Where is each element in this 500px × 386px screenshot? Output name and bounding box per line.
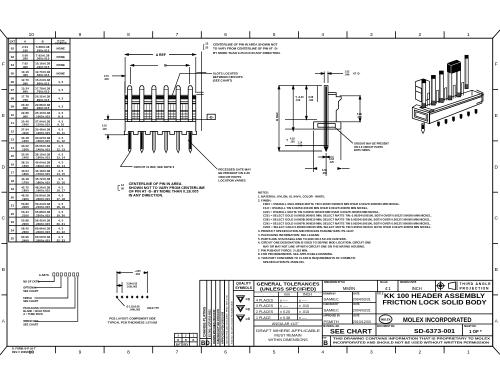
svg-text:22: 22 bbox=[11, 212, 15, 216]
svg-text:.2400: .2400 bbox=[21, 238, 29, 242]
svg-text:DOCUMENT NO.: DOCUMENT NO. bbox=[377, 326, 395, 328]
svg-text:APPROVED:PSM 2003/10/09: APPROVED:PSM 2003/10/09 bbox=[222, 311, 225, 344]
chart table header row bbox=[10, 40, 67, 45]
svg-text:6: 6 bbox=[224, 32, 227, 38]
datum flag box D bbox=[207, 114, 215, 119]
svg-text:CHECKED BY: CHECKED BY bbox=[323, 304, 339, 306]
svg-text:3 PLACES: 3 PLACES bbox=[256, 304, 274, 308]
svg-text:SYM: SYM bbox=[322, 337, 327, 339]
svg-text:SAMIEC: SAMIEC bbox=[324, 297, 339, 302]
svg-text:LOCATION VARIES: LOCATION VARIES bbox=[218, 179, 245, 183]
note 13 text bottom bbox=[129, 182, 206, 198]
svg-text:.1100: .1100 bbox=[21, 131, 29, 135]
svg-text:D: D bbox=[2, 164, 6, 170]
svg-text:PSMITH: PSMITH bbox=[324, 319, 339, 324]
svg-text:A REF: A REF bbox=[156, 53, 166, 57]
drawing title text bbox=[383, 293, 488, 307]
svg-text:.250: .250 bbox=[322, 172, 327, 175]
isometric view: long front tail bbox=[422, 123, 425, 134]
svg-text:12: 12 bbox=[11, 129, 15, 133]
svg-text:INCH: INCH bbox=[303, 293, 312, 297]
svg-text:15, 16: 15, 16 bbox=[57, 181, 66, 185]
svg-text:10: 10 bbox=[29, 32, 35, 38]
svg-text:.1300: .1300 bbox=[21, 148, 29, 152]
svg-text:.330: .330 bbox=[309, 99, 314, 102]
svg-text:.900: .900 bbox=[22, 114, 28, 118]
svg-text:.1200: .1200 bbox=[21, 139, 29, 143]
tolerance sub-table grid bbox=[254, 292, 322, 326]
tolerance sub-table text bbox=[256, 293, 312, 326]
isometric view: bottom pegs bbox=[422, 109, 477, 133]
svg-text:A: A bbox=[24, 40, 26, 44]
svg-text:.040±.002: .040±.002 bbox=[130, 308, 141, 311]
third angle projection text bbox=[460, 282, 492, 290]
svg-text:.2100±.015: .2100±.015 bbox=[35, 205, 50, 209]
isometric view: front lock block bbox=[412, 107, 429, 123]
svg-text:PROJECTION: PROJECTION bbox=[460, 287, 490, 291]
quality symbol marks bbox=[237, 296, 245, 302]
svg-text:06: 06 bbox=[11, 80, 15, 84]
front view bottom castellated edge bbox=[124, 132, 196, 135]
svg-text:SEE CHART: SEE CHART bbox=[330, 329, 372, 335]
note 13 text top bbox=[213, 42, 281, 55]
svg-text:ON 2-6 CIRCUIT PARTS: ON 2-6 CIRCUIT PARTS bbox=[354, 145, 383, 149]
side view left dim B REF bbox=[278, 86, 322, 151]
slots leader line bbox=[172, 52, 212, 132]
svg-text:15: 15 bbox=[11, 154, 15, 158]
svg-text:09: 09 bbox=[11, 105, 15, 109]
svg-text:14: 14 bbox=[11, 146, 15, 150]
isometric view: friction lock latch dark block bbox=[447, 60, 461, 74]
proprietary disclaimer bbox=[333, 336, 490, 344]
svg-text:FILE NO. SD-6373-001-B2 RELEAS: FILE NO. SD-6373-001-B2 RELEASE DATE bbox=[230, 300, 233, 344]
svg-text:4, 5: 4, 5 bbox=[58, 80, 63, 84]
svg-text:7: 7 bbox=[176, 350, 179, 356]
note 13 leader vertical bbox=[200, 52, 202, 132]
circuit 1 leader bbox=[121, 153, 133, 166]
front view slot wall verticals bbox=[134, 104, 186, 118]
svg-text:A: A bbox=[2, 318, 6, 324]
svg-text:10, 11: 10, 11 bbox=[57, 131, 66, 135]
form note under border bbox=[12, 346, 36, 353]
svg-text:F: F bbox=[495, 62, 498, 68]
isometric view: body top face bbox=[412, 79, 483, 124]
side view body profile bbox=[314, 93, 342, 130]
svg-text:.169: .169 bbox=[296, 99, 301, 102]
chart table data rows bbox=[11, 45, 66, 242]
svg-text:A: A bbox=[495, 318, 499, 324]
svg-text:.045: .045 bbox=[298, 145, 303, 148]
svg-text:4: 4 bbox=[321, 32, 324, 38]
svg-text:18, 19: 18, 19 bbox=[57, 205, 66, 209]
svg-text:.030: .030 bbox=[104, 78, 109, 81]
svg-text:E: E bbox=[495, 113, 498, 119]
svg-text:SEE CHART: SEE CHART bbox=[23, 299, 38, 303]
svg-text:.2000: .2000 bbox=[21, 205, 29, 209]
svg-text:B: B bbox=[193, 339, 195, 342]
svg-text:A-6373-: A-6373- bbox=[39, 273, 50, 277]
svg-text:CHECKED:MJTYER 2003/10/09: CHECKED:MJTYER 2003/10/09 bbox=[217, 308, 220, 344]
groove leader bbox=[335, 128, 353, 144]
svg-text:WITHIN DIMENSIONS: WITHIN DIMENSIONS bbox=[268, 337, 308, 342]
svg-text:.1400: .1400 bbox=[21, 156, 29, 160]
title block small headers row1 bbox=[324, 281, 417, 284]
svg-text:± .015: ± .015 bbox=[299, 310, 309, 314]
svg-text:SHEET NO.: SHEET NO. bbox=[464, 326, 477, 328]
svg-text:HOLE TYP: HOLE TYP bbox=[147, 307, 159, 310]
svg-text:.1000±.015: .1000±.015 bbox=[35, 114, 50, 118]
recessed gate label bbox=[218, 168, 251, 183]
svg-text:3: 3 bbox=[370, 32, 373, 38]
svg-text:B REF: B REF bbox=[275, 112, 279, 121]
svg-text:13, 14: 13, 14 bbox=[57, 156, 66, 160]
isometric view: pins bbox=[422, 55, 468, 107]
isometric view: left end wall bbox=[416, 79, 430, 102]
svg-text:.900±.015: .900±.015 bbox=[36, 106, 50, 110]
svg-text:D. FORM: B-P-JA-T: D. FORM: B-P-JA-T bbox=[12, 346, 36, 350]
side view inner dims bbox=[285, 86, 328, 146]
svg-text:.300: .300 bbox=[22, 65, 28, 69]
side view base box bbox=[314, 122, 341, 129]
narrow strip rotated text bbox=[227, 294, 234, 344]
svg-text:-D-: -D- bbox=[209, 116, 215, 120]
svg-text:ANGULAR ±1/2°: ANGULAR ±1/2° bbox=[272, 322, 299, 326]
svg-text:2 PLACES: 2 PLACES bbox=[256, 310, 274, 314]
revision strip rotated text bbox=[201, 306, 225, 347]
svg-text:5: 5 bbox=[273, 32, 276, 38]
svg-text:SHT: SHT bbox=[176, 343, 181, 346]
pcb layout holes bbox=[116, 295, 149, 298]
svg-text:.1100±.015: .1100±.015 bbox=[35, 123, 50, 127]
notes text block bbox=[258, 191, 432, 264]
material no / document no / sheet no values bbox=[330, 329, 482, 336]
groove label bbox=[354, 141, 389, 152]
svg-text:B: B bbox=[323, 340, 328, 347]
svg-text:.100±.002: .100±.002 bbox=[127, 285, 138, 288]
svg-text:INCORPORATED AND SHOULD NOT BE: INCORPORATED AND SHOULD NOT BE USED WITH… bbox=[333, 341, 489, 345]
svg-text:24: 24 bbox=[11, 228, 15, 232]
quality symbols header bbox=[235, 281, 253, 289]
svg-text:DATE: DATE bbox=[353, 303, 360, 306]
svg-text:SYMBOLS: SYMBOLS bbox=[235, 286, 253, 290]
svg-text:21: 21 bbox=[11, 204, 15, 208]
svg-text:SD-6373-001: SD-6373-001 bbox=[414, 329, 455, 335]
svg-text:NONE: NONE bbox=[57, 63, 66, 67]
svg-text:.700: .700 bbox=[22, 98, 28, 102]
legend leader lines bbox=[35, 276, 78, 321]
svg-text:.200±.015: .200±.015 bbox=[36, 48, 50, 52]
svg-text:.1200±.015: .1200±.015 bbox=[35, 131, 50, 135]
svg-text:LOCATION: LOCATION bbox=[55, 42, 67, 45]
svg-text:QUALITY: QUALITY bbox=[236, 281, 252, 285]
circuit chart table grid bbox=[9, 38, 70, 242]
front view body outline bbox=[125, 95, 196, 131]
svg-text:BOTH SIDES.: BOTH SIDES. bbox=[354, 148, 371, 152]
svg-text:.500: .500 bbox=[22, 81, 28, 85]
svg-text:4: 4 bbox=[321, 350, 324, 356]
svg-text:THIRD ANGLE: THIRD ANGLE bbox=[460, 282, 492, 286]
svg-text:13, 14: 13, 14 bbox=[57, 164, 66, 168]
svg-text:4, 5: 4, 5 bbox=[58, 96, 63, 100]
svg-text:.2200: .2200 bbox=[21, 222, 29, 226]
third angle projection symbol bbox=[436, 281, 457, 290]
svg-text:2004/03/31: 2004/03/31 bbox=[353, 309, 371, 313]
front view pins bbox=[128, 86, 193, 122]
svg-text:GROOVE MAY BE PRESENT: GROOVE MAY BE PRESENT bbox=[354, 141, 389, 145]
svg-text:MM/IN: MM/IN bbox=[343, 286, 355, 291]
svg-text:AT -D-: AT -D- bbox=[353, 73, 360, 76]
svg-text:MOLEX INCORPORATED: MOLEX INCORPORATED bbox=[403, 318, 472, 324]
svg-text:=0: =0 bbox=[246, 317, 250, 321]
svg-text:B: B bbox=[164, 64, 167, 68]
pcb layout dim labels bbox=[127, 270, 160, 312]
svg-text:DIMENSION STYLE: DIMENSION STYLE bbox=[324, 282, 346, 284]
svg-text:.500±.015: .500±.015 bbox=[36, 73, 50, 77]
svg-text:8: 8 bbox=[127, 32, 130, 38]
svg-text:(UNLESS SPECIFIED): (UNLESS SPECIFIED) bbox=[260, 287, 317, 292]
svg-text:NONE: NONE bbox=[57, 47, 66, 51]
svg-text:.040: .040 bbox=[345, 74, 350, 77]
svg-text:.1800±.015: .1800±.015 bbox=[35, 181, 50, 185]
svg-text:13: 13 bbox=[121, 183, 124, 187]
svg-text:20, 21: 20, 21 bbox=[57, 222, 66, 226]
title block grid bbox=[224, 280, 492, 346]
svg-text:7: 7 bbox=[176, 32, 179, 38]
svg-text:DATE: DATE bbox=[353, 292, 360, 295]
svg-text:.1400±.015: .1400±.015 bbox=[35, 148, 50, 152]
svg-text:SAMIEC: SAMIEC bbox=[324, 308, 339, 313]
front view body hatched bands bbox=[125, 96, 196, 117]
svg-text:TYPICAL PCB THICKNESS 1.57/.06: TYPICAL PCB THICKNESS 1.57/.062 bbox=[108, 321, 158, 325]
revision strip box bbox=[200, 280, 225, 346]
svg-text:.1800: .1800 bbox=[21, 189, 29, 193]
svg-text:.2200±.015: .2200±.015 bbox=[35, 214, 50, 218]
svg-text:.125: .125 bbox=[329, 161, 334, 164]
svg-text:CKT: CKT bbox=[10, 40, 16, 44]
svg-text:.200: .200 bbox=[357, 116, 362, 119]
legend labels bbox=[23, 279, 50, 326]
svg-text:APPROVED BY: APPROVED BY bbox=[323, 315, 340, 318]
svg-text:4 PLACES: 4 PLACES bbox=[256, 298, 274, 302]
svg-text:DRAWN BY: DRAWN BY bbox=[323, 292, 336, 295]
sym B revision box bbox=[322, 337, 328, 347]
svg-text:.1900: .1900 bbox=[21, 197, 29, 201]
svg-text:8, 9: 8, 9 bbox=[58, 114, 63, 118]
svg-text:E: E bbox=[2, 113, 5, 119]
svg-text:16, 17: 16, 17 bbox=[57, 189, 66, 193]
sheet border frame bbox=[7, 38, 493, 346]
svg-text:11: 11 bbox=[11, 121, 15, 125]
sheet revision mini table bbox=[175, 333, 198, 346]
svg-text:REV: REV bbox=[183, 343, 188, 346]
svg-text:.100: .100 bbox=[22, 48, 28, 52]
svg-text:.2300±.015: .2300±.015 bbox=[35, 222, 50, 226]
left small dim labels front view bbox=[102, 75, 109, 131]
svg-text:25: 25 bbox=[11, 237, 15, 241]
svg-text:2004/03/31: 2004/03/31 bbox=[353, 298, 371, 302]
svg-text:± 0.38: ± 0.38 bbox=[280, 316, 290, 320]
svg-text:.125: .125 bbox=[102, 128, 107, 131]
slots located label bbox=[213, 72, 243, 83]
svg-text:.1700±.015: .1700±.015 bbox=[35, 172, 50, 176]
svg-text:17, 18: 17, 18 bbox=[57, 197, 66, 201]
drawn/checked/approved rows bbox=[323, 292, 476, 328]
svg-text:FRICTION LOCK SOLID BODY: FRICTION LOCK SOLID BODY bbox=[383, 300, 488, 307]
svg-text:BD: BD bbox=[201, 341, 210, 347]
svg-text:.165: .165 bbox=[290, 140, 295, 143]
svg-text:± ----: ± ---- bbox=[280, 304, 289, 308]
datum centerline -D- bbox=[104, 119, 207, 121]
svg-text:.2100: .2100 bbox=[21, 214, 29, 218]
svg-text:REV. F 2006/06/16: REV. F 2006/06/16 bbox=[12, 350, 34, 354]
svg-text:.800±.015: .800±.015 bbox=[36, 98, 50, 102]
svg-text:B: B bbox=[185, 339, 187, 342]
svg-text:19: 19 bbox=[11, 187, 15, 191]
legend part number boxes bbox=[53, 273, 79, 276]
svg-text:11, 12: 11, 12 bbox=[57, 139, 66, 143]
svg-text:.1600: .1600 bbox=[21, 172, 29, 176]
svg-text:.1500: .1500 bbox=[21, 164, 29, 168]
svg-text:.1900±.015: .1900±.015 bbox=[35, 189, 50, 193]
svg-text:.2400±.015: .2400±.015 bbox=[35, 230, 50, 234]
svg-text:2010/12/03: 2010/12/03 bbox=[353, 320, 371, 324]
svg-text:NONE: NONE bbox=[57, 55, 66, 59]
svg-text:4, 5: 4, 5 bbox=[58, 88, 63, 92]
dimension A REF over front view bbox=[125, 54, 196, 94]
svg-text:22, 23: 22, 23 bbox=[57, 238, 66, 242]
svg-text:.600: .600 bbox=[22, 90, 28, 94]
svg-text:9: 9 bbox=[79, 350, 82, 356]
svg-text:(SEE CHART): (SEE CHART) bbox=[213, 79, 232, 83]
svg-text:SCALE: SCALE bbox=[380, 281, 388, 284]
svg-text:± ----: ± ---- bbox=[299, 298, 308, 302]
svg-text:MATERIAL NO.: MATERIAL NO. bbox=[323, 325, 340, 328]
svg-text:.800: .800 bbox=[22, 106, 28, 110]
svg-text:2: 2 bbox=[418, 350, 421, 356]
svg-text:± 0.25: ± 0.25 bbox=[280, 310, 290, 314]
isometric view: body front face bbox=[429, 93, 482, 123]
recessed gate leader bbox=[188, 140, 217, 169]
svg-text:18: 18 bbox=[11, 179, 15, 183]
svg-text:NONE: NONE bbox=[57, 72, 66, 76]
svg-text:03: 03 bbox=[11, 55, 15, 59]
svg-text:13: 13 bbox=[11, 138, 15, 142]
svg-text:SEE CHART: SEE CHART bbox=[23, 322, 38, 326]
svg-text:04: 04 bbox=[11, 63, 15, 67]
isometric view: inter-pin walls bbox=[428, 82, 464, 106]
pcb layout caption bbox=[108, 317, 158, 325]
svg-text:-.002: -.002 bbox=[135, 273, 141, 276]
svg-text:=0: =0 bbox=[246, 298, 250, 302]
svg-text:DATE: DATE bbox=[353, 315, 360, 318]
side view top dim 1.02/.040 AT -D- bbox=[315, 72, 343, 84]
svg-text:20: 20 bbox=[11, 195, 15, 199]
svg-text:.400: .400 bbox=[22, 73, 28, 77]
svg-text:.1700: .1700 bbox=[21, 181, 29, 185]
pcb hole leader bbox=[118, 298, 125, 306]
svg-text:TITLE: TITLE bbox=[377, 293, 384, 295]
svg-text:23: 23 bbox=[11, 220, 15, 224]
svg-text:.2000±.015: .2000±.015 bbox=[35, 197, 50, 201]
general tolerances heading bbox=[257, 281, 320, 291]
svg-text:BY MORE THAN 0.25/.010 IN ANY: BY MORE THAN 0.25/.010 IN ANY DIRECTION. bbox=[213, 51, 281, 55]
svg-text:IN ANY DIRECTION.: IN ANY DIRECTION. bbox=[129, 194, 164, 198]
svg-text:B: B bbox=[42, 40, 44, 44]
svg-text:.1500±.015: .1500±.015 bbox=[35, 156, 50, 160]
svg-text:4, 5: 4, 5 bbox=[58, 105, 63, 109]
svg-text:.400±.015: .400±.015 bbox=[36, 65, 50, 69]
svg-text:21, 22: 21, 22 bbox=[57, 230, 66, 234]
svg-text:SPECIFICATION PS-45499-001.: SPECIFICATION PS-45499-001. bbox=[263, 260, 305, 264]
svg-text:12, 13: 12, 13 bbox=[57, 148, 66, 152]
svg-text:F: F bbox=[2, 62, 5, 68]
svg-text:.200: .200 bbox=[22, 57, 28, 61]
svg-text:10: 10 bbox=[11, 113, 15, 117]
svg-text:.2500±.015: .2500±.015 bbox=[35, 238, 50, 242]
svg-text:INCH: INCH bbox=[412, 286, 422, 291]
svg-text:8: 8 bbox=[127, 350, 130, 356]
svg-text:.600±.015: .600±.015 bbox=[36, 81, 50, 85]
svg-text:.700±.015: .700±.015 bbox=[36, 90, 50, 94]
zone row letters bbox=[2, 62, 499, 325]
svg-text:CHANGE PLATING: CHANGE PLATING bbox=[202, 306, 206, 337]
svg-text:.300±.015: .300±.015 bbox=[36, 57, 50, 61]
svg-text:08: 08 bbox=[11, 96, 15, 100]
note flag 13 bottom bbox=[118, 183, 124, 191]
svg-text:2: 2 bbox=[418, 32, 421, 38]
svg-text:14, 15: 14, 15 bbox=[57, 172, 66, 176]
svg-text:B: B bbox=[495, 267, 498, 273]
svg-text:1 PLACE: 1 PLACE bbox=[256, 316, 271, 320]
zone column numbers bbox=[29, 32, 470, 355]
svg-text:± ----: ± ---- bbox=[280, 298, 289, 302]
title block row1 values bbox=[343, 286, 422, 291]
svg-text:SEE CHART: SEE CHART bbox=[23, 289, 38, 293]
svg-text:07: 07 bbox=[11, 88, 15, 92]
svg-text:13: 13 bbox=[205, 42, 208, 46]
draft note bbox=[256, 328, 320, 342]
svg-text:.1300±.015: .1300±.015 bbox=[35, 139, 50, 143]
side view pin bar bbox=[324, 86, 328, 152]
svg-text:.1000: .1000 bbox=[21, 123, 29, 127]
svg-text:mm: mm bbox=[284, 293, 290, 297]
svg-text:B: B bbox=[177, 339, 179, 342]
svg-text:4:1: 4:1 bbox=[385, 286, 391, 291]
svg-text:9: 9 bbox=[79, 32, 82, 38]
side view right vertical dim 5.08/.200 bbox=[340, 96, 361, 122]
svg-text:25: 25 bbox=[205, 45, 208, 49]
svg-text:CIRCUIT #1 REF, SEE NOTE 6: CIRCUIT #1 REF, SEE NOTE 6 bbox=[134, 165, 175, 169]
svg-text:17: 17 bbox=[11, 171, 15, 175]
svg-text:.1600±.015: .1600±.015 bbox=[35, 164, 50, 168]
svg-text:C: C bbox=[494, 216, 498, 222]
side view bottom dims bbox=[305, 131, 350, 177]
svg-text:D: D bbox=[494, 164, 498, 170]
svg-text:C: C bbox=[2, 216, 6, 222]
pcb layout dim lines bbox=[117, 271, 147, 293]
svg-text:UNCONTROLLED DOCUMENT PRINT RE: UNCONTROLLED DOCUMENT PRINT REF 2010 bbox=[227, 294, 229, 344]
dimension B over front view bbox=[131, 64, 190, 84]
svg-text:DESIGN UNITS: DESIGN UNITS bbox=[400, 282, 417, 284]
svg-text:A = TUBE PACK: A = TUBE PACK bbox=[23, 312, 43, 316]
svg-text:=0: =0 bbox=[246, 307, 250, 311]
svg-text:.2300: .2300 bbox=[21, 230, 29, 234]
svg-text:MOLEX: MOLEX bbox=[381, 318, 391, 322]
svg-text:9, 10: 9, 10 bbox=[57, 123, 64, 127]
svg-text:1 OF *: 1 OF * bbox=[469, 329, 482, 334]
svg-text:19, 20: 19, 20 bbox=[57, 214, 66, 218]
front view pin tails bbox=[128, 132, 191, 153]
